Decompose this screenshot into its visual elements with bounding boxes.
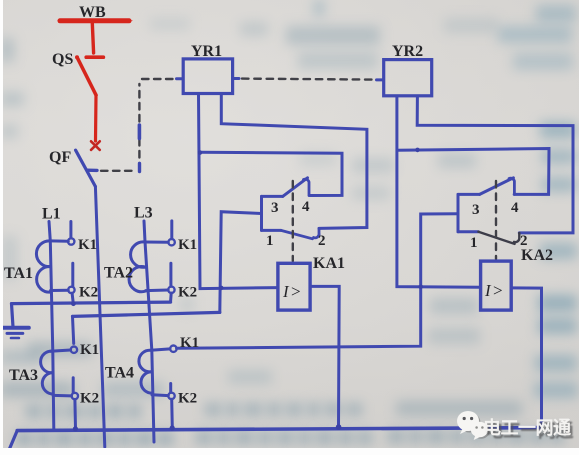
left edge bleed (0, 38, 14, 62)
svg-text:K1: K1 (180, 335, 199, 351)
svg-text:1: 1 (470, 235, 478, 251)
svg-text:2: 2 (318, 233, 326, 249)
terminal K1 of TA2 (168, 239, 174, 245)
ground symbol (3, 328, 29, 338)
trip coil YR1 (183, 59, 232, 94)
bottom bus3 (17, 428, 541, 431)
svg-text:3: 3 (472, 202, 480, 218)
right column bleed text (536, 5, 576, 22)
wire KA1 coil right lead down to bottom bus (310, 286, 339, 427)
contact KA2 terminal 2 hook (514, 233, 519, 242)
contact KA2 blade 1-2 (478, 232, 514, 244)
dashed trip linkage QF to YR1 (101, 79, 183, 172)
svg-text:I: I (282, 282, 290, 301)
wire KA2 coil right lead down to bottom bus (511, 288, 541, 429)
svg-text:QS: QS (52, 51, 73, 68)
bus2 from TA3 K1 riser to KA1 rail feed (73, 312, 220, 316)
wechat icon (457, 411, 488, 440)
relay coil KA2 box (481, 261, 512, 310)
watermark (455, 406, 579, 448)
line L1 (49, 222, 54, 430)
svg-text:KA2: KA2 (521, 247, 553, 264)
watermark text shadow (486, 417, 578, 443)
svg-text:TA3: TA3 (9, 367, 38, 384)
contact KA1 blade 1-2 (281, 230, 313, 238)
dashed mechanical link KA2 (495, 181, 497, 259)
CT TA2 coil (129, 242, 168, 292)
svg-text:YR1: YR1 (191, 43, 222, 60)
svg-text:L3: L3 (134, 205, 153, 222)
svg-text:1: 1 (266, 233, 274, 249)
contact KA1 blade 3-4 (283, 178, 308, 197)
svg-text:L1: L1 (42, 206, 61, 223)
wire YR1 right lead to KA1 contact terminal 2 loop (221, 94, 367, 229)
svg-text:K2: K2 (178, 285, 197, 301)
terminal K2 of TA2 (168, 287, 174, 293)
svg-text:K1: K1 (78, 237, 97, 253)
riser TA3 K1 (73, 316, 74, 343)
wire branch to KA2 contact terminal 4 loop (397, 149, 549, 195)
breaker QF blade (76, 150, 97, 186)
svg-text:WB: WB (79, 4, 106, 21)
trip coil YR2 (384, 60, 432, 96)
svg-text:TA1: TA1 (4, 265, 33, 282)
contact KA1 terminal 4 hook (304, 179, 310, 195)
wire branch to KA1 contact terminal 4 loop (200, 152, 342, 195)
svg-text:>: > (291, 282, 301, 301)
lower area bleed rows (28, 342, 92, 357)
wire YR2 left lead down to KA2 coil (397, 96, 481, 287)
wire from TA4 K1 up to KA2 contact rail (177, 214, 458, 349)
svg-text:YR2: YR2 (392, 43, 423, 60)
svg-text:K2: K2 (178, 391, 197, 407)
svg-text:I: I (484, 281, 492, 300)
CT TA3 coil (41, 350, 72, 396)
earth riser (12, 304, 14, 327)
white bottom margin (0, 448, 579, 455)
terminal K1 of TA4 (170, 346, 176, 352)
mid right bleed (438, 153, 476, 168)
terminal K2 of TA1 (68, 287, 74, 293)
contact KA1 left rail with terminals 3 and 1 (262, 196, 283, 230)
disconnector QS (red) (75, 55, 103, 141)
bus3 left end drop (9, 431, 17, 450)
ground bus1 from earth to TA2 K2 (12, 302, 171, 304)
terminal K1 of TA1 (68, 238, 74, 244)
line L3 (144, 221, 154, 442)
wire YR1 left lead down to KA1 coil (199, 94, 278, 289)
terminal K2 of TA3 (72, 393, 78, 399)
svg-text:K1: K1 (178, 237, 197, 253)
white left margin (0, 0, 3, 455)
dashed link YR1 to YR2 (233, 79, 384, 80)
CT TA4 coil (139, 349, 170, 396)
svg-text:QF: QF (49, 149, 71, 166)
wechat icon shadow (459, 413, 490, 439)
svg-text:>: > (493, 281, 503, 300)
wire from ground bus2 up to KA1 contact rail (220, 212, 262, 313)
contact KA2 left rail with terminals 3 and 1 (458, 194, 480, 231)
svg-text:4: 4 (511, 200, 519, 216)
svg-text:K2: K2 (79, 285, 98, 301)
svg-text:TA4: TA4 (105, 365, 134, 382)
svg-text:K1: K1 (80, 342, 99, 358)
svg-text:3: 3 (271, 200, 279, 216)
svg-text:K2: K2 (80, 391, 99, 407)
contact KA2 terminal 4 hook (509, 178, 514, 194)
dashed mechanical link KA1 (292, 181, 294, 261)
contact KA1 terminal 2 hook (314, 228, 320, 237)
svg-text:KA1: KA1 (313, 255, 345, 272)
relay coil KA1 box (278, 263, 310, 310)
wire YR2 right lead to KA2 contact terminal 2 loop (417, 96, 573, 233)
terminal K1 of TA3 (71, 347, 77, 353)
svg-text:4: 4 (302, 199, 310, 215)
upper middle bleed (286, 26, 380, 45)
busbar WB (red) (57, 19, 133, 53)
contact KA2 blade 3-4 (480, 178, 514, 195)
CT TA1 coil (36, 241, 68, 292)
wire QF output line down to bottom (95, 187, 104, 448)
svg-text:TA2: TA2 (104, 265, 133, 282)
breaker QF fixed-contact X mark (red) (91, 141, 100, 150)
watermark text (483, 414, 577, 440)
terminal K2 of TA4 (168, 393, 174, 399)
